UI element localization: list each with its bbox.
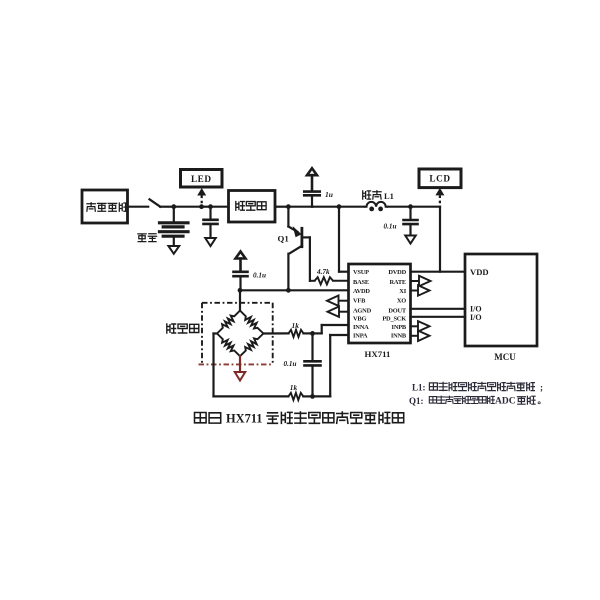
svg-text:PD_SCK: PD_SCK [382,316,406,323]
caption 图四 HX711 计价秤应用参考电路图 [195,412,404,426]
svg-text:INNB: INNB [391,332,407,339]
label I/O upper [470,304,482,313]
svg-text:BASE: BASE [353,279,369,286]
wire AVDD rail [240,289,349,291]
label 1k bottom [290,383,298,392]
svg-text:0.1u: 0.1u [284,360,297,368]
svg-text:VFB: VFB [353,297,366,304]
svg-text:1k: 1k [292,321,300,330]
block regulator 稳压管 [229,191,276,223]
label 1k top [292,321,300,330]
svg-text:HX711: HX711 [365,349,391,359]
arrow RATE [411,276,431,286]
label MCU [494,352,516,362]
wire C2 branch to VSUP branch [312,206,339,208]
label Q1 [278,234,289,244]
switch S1 [150,199,161,206]
ground below bridge (red) [235,356,246,380]
ground below C1 [205,238,216,246]
svg-text:1k: 1k [290,383,298,392]
wire Q1 base [302,237,310,280]
svg-text:DOUT: DOUT [388,307,407,314]
capacitor C3 0.1u [234,272,248,291]
wire bridge left down [214,334,218,397]
wire to ferrite bead [339,206,364,208]
wire PD_SCK to MCU [411,316,466,318]
arrow AGND [328,307,349,317]
node battery junction [171,204,176,209]
svg-text:1u: 1u [325,190,333,199]
wire DVDD to MCU VDD [411,271,466,273]
power arrow above C2 [307,168,317,190]
label 0.1u of C4 [384,223,397,231]
arrow VFB [327,296,349,306]
arrow INNB [411,331,430,341]
label 电池 [138,234,157,242]
bridge resistor top-left [217,311,240,334]
block MCU U2 [465,254,537,346]
wire DOUT to MCU [411,308,466,310]
bridge resistor bottom-left [217,334,240,357]
node AVDD bridge branch [238,288,243,293]
svg-text:AVDD: AVDD [353,288,370,295]
svg-text:MCU: MCU [494,352,516,362]
note Q1 [409,396,546,407]
svg-text:VBG: VBG [353,316,366,323]
wire rail down to MCU VDD [439,207,441,272]
wire to INNA [313,325,349,333]
svg-text:VDD: VDD [470,267,489,277]
ground below battery [168,246,179,254]
svg-text:LED: LED [191,174,212,184]
label 0.1u of C5 [284,360,297,368]
svg-text:HX711: HX711 [226,412,263,426]
wire bridge right to R2 [263,332,288,334]
svg-text:XI: XI [399,288,406,295]
svg-text:。: 。 [538,396,547,406]
svg-text:INPA: INPA [353,332,368,339]
svg-text:INNA: INNA [353,324,369,331]
sensor enclosure box (dash-dot) [199,303,273,365]
label 1u [325,190,333,199]
wire charger to switch [128,206,149,208]
svg-text:Q1:: Q1: [409,396,424,406]
wire R2 to filter junction [304,332,313,334]
resistor R1 4.7k [310,277,349,284]
wire R3 to filter junction [303,395,312,397]
wire regulator to Q1 emitter node [275,206,288,208]
label 0.1u of C3 [253,272,266,280]
dashed arrow to LED [197,188,206,206]
ferrite bead L1 [364,202,388,211]
svg-text:INPB: INPB [392,324,407,331]
wire AVDD to bridge top [239,290,241,310]
svg-text:VSUP: VSUP [353,269,369,276]
svg-text:;: ; [540,383,543,393]
svg-text:0.1u: 0.1u [384,223,397,231]
transistor Q1 [288,207,302,291]
wire VSUP drop [339,207,349,272]
resistor R3 1k [288,393,303,400]
svg-text:I/O: I/O [470,313,482,322]
bridge resistor top-right [240,311,263,334]
node C4 branch [408,204,413,209]
op-amp U1 HX711 body [349,264,411,343]
capacitor C4 0.1u [404,207,418,236]
capacitor C2 1u [304,192,320,207]
wire C1 branch to regulator [211,206,229,208]
svg-text:DVDD: DVDD [388,269,406,276]
node bottom filter junction [310,394,315,399]
label 磁珠 L1 [363,191,394,201]
dashed arrow to LCD [435,188,444,206]
note L1 [412,382,543,392]
label HX711 [365,349,391,359]
node Q1 emitter junction [286,204,291,209]
node VSUP branch [337,204,342,209]
LCD block [419,169,461,188]
wire bottom rail [214,395,289,397]
bridge resistor bottom-right [240,334,263,357]
svg-text:Q1: Q1 [278,234,289,244]
label 传感器 [167,324,199,333]
svg-text:XO: XO [397,297,406,304]
capacitor C5 0.1u [305,333,321,396]
svg-text:L1:: L1: [412,383,426,393]
wire Q1 node to C2 branch [288,206,312,208]
node C1 branch [208,204,213,209]
node Q1 collector junction [286,288,291,293]
wire LED branch to cap branch [202,206,211,208]
label I/O lower [470,313,482,322]
capacitor C1 [204,207,218,238]
arrow XI [411,285,430,295]
wire bead to C4 node [388,206,411,208]
block charger 充电电路 [82,190,128,223]
battery BT1 [160,207,189,246]
node LED branch [199,204,204,209]
svg-text:AGND: AGND [353,307,372,314]
node top filter junction [310,331,315,336]
svg-text:ADC: ADC [495,397,516,407]
LED indicator block [181,170,223,188]
svg-text:0.1u: 0.1u [253,272,266,280]
wire battery node to LED branch [174,206,202,208]
wire to INPA riser [313,335,349,396]
wire C4 node to rail corner [411,206,441,208]
wire switch to battery node [160,206,174,208]
svg-text:4.7k: 4.7k [316,268,330,276]
label VDD [470,267,489,277]
label 4.7k [316,268,330,276]
svg-text:RATE: RATE [390,279,406,286]
resistor R2 1k [289,330,304,337]
arrow INPB [411,321,430,331]
power arrow above C3 [236,252,246,271]
svg-text:L1: L1 [384,191,394,201]
svg-text:LCD: LCD [429,174,450,184]
ground below C4 [405,236,416,244]
HX711 pin name labels [353,269,407,339]
